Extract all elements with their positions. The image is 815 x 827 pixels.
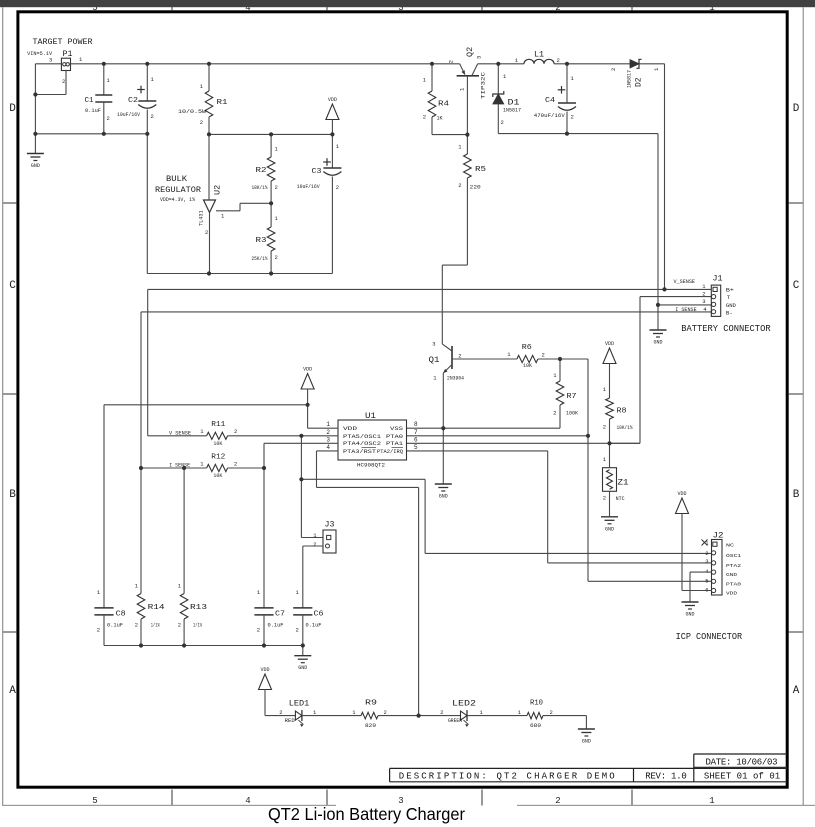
svg-text:TIP32C: TIP32C: [481, 72, 487, 99]
svg-text:T: T: [727, 294, 731, 301]
svg-text:GND: GND: [726, 302, 736, 309]
svg-text:PTA1: PTA1: [386, 440, 404, 447]
svg-text:2: 2: [610, 68, 617, 71]
svg-text:820: 820: [365, 723, 376, 729]
svg-text:1N5817: 1N5817: [627, 70, 633, 88]
svg-text:6: 6: [414, 436, 418, 443]
svg-text:R5: R5: [475, 166, 486, 174]
svg-text:Q1: Q1: [429, 355, 440, 365]
svg-text:C7: C7: [275, 610, 285, 618]
svg-text:V_SENSE: V_SENSE: [674, 278, 696, 285]
svg-text:100K: 100K: [566, 410, 579, 416]
svg-text:2: 2: [557, 57, 560, 64]
svg-text:3: 3: [705, 558, 708, 565]
svg-text:R14: R14: [148, 604, 165, 612]
svg-text:R2: R2: [256, 167, 267, 175]
svg-text:NTC: NTC: [616, 496, 625, 502]
svg-text:C1: C1: [85, 97, 94, 105]
svg-text:GND: GND: [439, 494, 448, 500]
svg-text:2: 2: [97, 627, 100, 634]
svg-text:2: 2: [440, 709, 443, 716]
svg-text:2: 2: [458, 182, 461, 189]
svg-text:HC908QT2: HC908QT2: [357, 462, 385, 468]
svg-text:I SENSE: I SENSE: [169, 461, 190, 468]
svg-text:PTA4/OSC2: PTA4/OSC2: [343, 440, 381, 447]
svg-text:R9: R9: [365, 700, 377, 708]
svg-text:2: 2: [501, 119, 504, 126]
svg-text:Q2: Q2: [465, 47, 475, 57]
svg-text:2: 2: [279, 709, 282, 716]
svg-text:5: 5: [414, 444, 418, 451]
svg-text:2: 2: [423, 114, 426, 121]
svg-text:2: 2: [384, 709, 387, 716]
svg-text:2: 2: [295, 627, 298, 634]
svg-text:2: 2: [702, 290, 705, 297]
svg-text:TARGET POWER: TARGET POWER: [33, 38, 93, 47]
svg-text:3: 3: [432, 341, 435, 348]
svg-text:2: 2: [257, 627, 260, 634]
svg-text:2: 2: [555, 796, 560, 806]
svg-text:Z1: Z1: [618, 478, 629, 487]
svg-text:J2: J2: [713, 531, 724, 541]
svg-text:REV: 1.0: REV: 1.0: [645, 772, 687, 782]
svg-text:2: 2: [135, 622, 138, 629]
svg-text:7: 7: [414, 429, 418, 436]
svg-text:3: 3: [326, 436, 330, 443]
svg-text:B-: B-: [726, 309, 733, 316]
svg-text:A: A: [793, 685, 800, 697]
svg-text:2: 2: [550, 709, 553, 716]
svg-text:U1: U1: [365, 411, 376, 421]
svg-text:B+: B+: [726, 287, 735, 294]
svg-text:1K: 1K: [437, 116, 444, 122]
svg-text:2: 2: [205, 229, 208, 236]
svg-text:VDD=4.3V, 1%: VDD=4.3V, 1%: [160, 197, 195, 203]
svg-text:18K/1%: 18K/1%: [252, 185, 269, 191]
svg-text:VDD: VDD: [303, 367, 312, 373]
svg-text:LED2: LED2: [452, 700, 476, 709]
svg-text:C: C: [793, 280, 800, 292]
svg-text:R8: R8: [617, 408, 627, 416]
svg-text:2: 2: [178, 622, 181, 629]
svg-text:5: 5: [705, 577, 708, 584]
svg-text:5: 5: [92, 796, 97, 806]
svg-text:PTA0: PTA0: [386, 433, 404, 440]
svg-text:0.1uF: 0.1uF: [268, 623, 284, 629]
svg-text:C8: C8: [116, 610, 126, 618]
svg-text:VSS: VSS: [390, 425, 404, 432]
svg-text:2: 2: [107, 115, 110, 122]
svg-text:D: D: [9, 103, 16, 115]
svg-text:2: 2: [200, 119, 203, 126]
svg-text:V SENSE: V SENSE: [169, 429, 191, 436]
svg-text:2: 2: [275, 184, 278, 191]
svg-text:220: 220: [470, 184, 481, 190]
svg-text:3: 3: [702, 298, 705, 305]
svg-text:2: 2: [234, 460, 237, 467]
svg-text:10uF/16V: 10uF/16V: [297, 184, 321, 190]
svg-text:10K: 10K: [213, 473, 222, 479]
svg-text:P1: P1: [63, 50, 73, 59]
svg-text:2: 2: [458, 353, 461, 360]
svg-text:R10: R10: [530, 700, 543, 708]
svg-text:L1: L1: [534, 50, 544, 59]
svg-text:LED1: LED1: [289, 700, 310, 709]
svg-text:D2: D2: [635, 77, 644, 87]
svg-text:3: 3: [49, 57, 52, 64]
svg-text:GND: GND: [298, 665, 307, 671]
svg-text:NC: NC: [726, 543, 734, 549]
svg-text:C2: C2: [128, 97, 138, 105]
svg-text:B: B: [9, 489, 16, 501]
svg-text:0.1uF: 0.1uF: [107, 623, 123, 629]
svg-text:VDD: VDD: [343, 425, 358, 432]
svg-text:2: 2: [151, 113, 154, 120]
svg-text:REGULATOR: REGULATOR: [155, 186, 201, 195]
svg-text:VDD: VDD: [726, 591, 737, 597]
svg-text:0.1uF: 0.1uF: [306, 623, 322, 629]
svg-text:R7: R7: [567, 393, 577, 401]
svg-text:GND: GND: [31, 163, 40, 169]
svg-text:10K: 10K: [523, 363, 532, 369]
svg-text:U2: U2: [213, 185, 223, 195]
svg-text:GREEN: GREEN: [448, 718, 462, 724]
svg-text:GND: GND: [685, 612, 694, 618]
svg-text:B: B: [793, 489, 800, 501]
svg-text:3: 3: [476, 56, 483, 59]
svg-text:25K/1%: 25K/1%: [252, 256, 269, 262]
svg-text:10/0.5W: 10/0.5W: [178, 109, 207, 115]
svg-text:2: 2: [553, 410, 556, 417]
svg-text:C: C: [9, 280, 16, 292]
svg-text:SHEET 01 of 01: SHEET 01 of 01: [704, 772, 780, 782]
svg-text:1/1%: 1/1%: [151, 623, 161, 629]
svg-text:2: 2: [603, 495, 606, 502]
svg-text:2: 2: [234, 428, 237, 435]
svg-text:BULK: BULK: [166, 175, 187, 184]
svg-text:10K: 10K: [213, 441, 222, 447]
svg-text:C4: C4: [545, 97, 555, 105]
svg-text:R3: R3: [256, 237, 267, 245]
svg-text:1/1%: 1/1%: [193, 623, 203, 629]
svg-text:ICP CONNECTOR: ICP CONNECTOR: [676, 632, 743, 642]
svg-text:R6: R6: [522, 344, 532, 352]
svg-text:0.1uF: 0.1uF: [85, 108, 101, 114]
svg-text:QT2 Li-ion Battery Charger: QT2 Li-ion Battery Charger: [268, 804, 465, 824]
svg-text:2: 2: [448, 60, 455, 63]
svg-text:4: 4: [326, 444, 330, 451]
svg-text:2: 2: [542, 351, 545, 358]
svg-text:GND: GND: [653, 340, 662, 346]
svg-text:VDD: VDD: [605, 341, 614, 347]
svg-text:I SENSE: I SENSE: [675, 306, 697, 313]
svg-text:PTA2: PTA2: [726, 563, 741, 569]
svg-text:D1: D1: [508, 98, 520, 107]
svg-text:2: 2: [62, 78, 65, 85]
svg-text:2: 2: [275, 254, 278, 261]
svg-text:GND: GND: [605, 526, 614, 532]
svg-text:4: 4: [245, 796, 250, 806]
svg-text:TL431: TL431: [199, 210, 205, 226]
svg-text:J3: J3: [325, 521, 335, 530]
svg-text:C6: C6: [314, 610, 324, 618]
svg-text:2: 2: [571, 114, 574, 121]
svg-text:2: 2: [313, 541, 316, 548]
svg-text:10K/1%: 10K/1%: [617, 425, 634, 431]
svg-text:OSC1: OSC1: [726, 553, 741, 559]
svg-text:C3: C3: [312, 168, 322, 176]
svg-text:2: 2: [603, 424, 606, 431]
svg-text:RED: RED: [285, 718, 295, 724]
svg-text:2N3904: 2N3904: [447, 376, 464, 382]
svg-text:VDD: VDD: [328, 97, 337, 103]
svg-text:1: 1: [709, 796, 714, 806]
svg-text:8: 8: [414, 421, 418, 428]
svg-text:R1: R1: [217, 99, 228, 107]
svg-text:R13: R13: [190, 604, 207, 612]
svg-text:R12: R12: [211, 453, 225, 461]
svg-text:BATTERY CONNECTOR: BATTERY CONNECTOR: [681, 324, 771, 334]
svg-text:1N5817: 1N5817: [503, 108, 521, 114]
svg-text:J1: J1: [713, 273, 723, 283]
svg-text:R11: R11: [211, 421, 225, 429]
svg-text:VDD: VDD: [260, 667, 269, 673]
svg-text:2: 2: [336, 184, 339, 191]
svg-text:470uF/16V: 470uF/16V: [534, 113, 566, 119]
svg-text:680: 680: [530, 723, 541, 729]
svg-text:1: 1: [326, 421, 330, 428]
svg-text:2: 2: [326, 429, 330, 436]
svg-text:10uF/16V: 10uF/16V: [117, 112, 141, 118]
svg-text:DATE: 10/06/03: DATE: 10/06/03: [706, 758, 778, 768]
svg-text:VDD: VDD: [677, 491, 686, 497]
svg-text:DESCRIPTION: QT2 CHARGER DEMO: DESCRIPTION: QT2 CHARGER DEMO: [399, 772, 615, 782]
svg-text:PTA5/OSC1: PTA5/OSC1: [343, 433, 382, 440]
svg-text:2: 2: [705, 550, 708, 557]
svg-text:D: D: [793, 103, 800, 115]
svg-text:A: A: [9, 685, 16, 697]
svg-text:GND: GND: [582, 739, 591, 745]
svg-text:PTA0: PTA0: [726, 581, 741, 587]
svg-text:R4: R4: [438, 101, 449, 109]
svg-text:PTA2/IRQ: PTA2/IRQ: [377, 448, 404, 455]
svg-text:GND: GND: [726, 572, 737, 578]
svg-text:PTA3/RST: PTA3/RST: [343, 448, 377, 455]
